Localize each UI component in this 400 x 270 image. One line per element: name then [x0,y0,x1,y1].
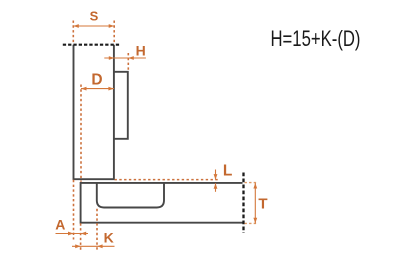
hinge cup hole [97,183,164,208]
svg-text:S: S [90,8,99,23]
svg-text:K: K [104,230,114,246]
svg-text:T: T [258,195,267,212]
black dashed reference line right [242,173,244,234]
side panel (vertical piece) [74,45,114,180]
extension line S right [113,21,115,44]
extension tick T bottom [245,222,258,224]
dimension D [81,87,114,91]
dimension S [73,24,114,28]
svg-text:A: A [55,217,65,233]
dimension L [214,170,218,192]
dimension K [72,244,115,248]
svg-text:H=15+K-(D): H=15+K-(D) [271,26,361,51]
extension line S left [72,21,74,44]
svg-text:H: H [136,42,146,58]
extension line H right [127,53,129,71]
dimension T [253,183,257,223]
extension line panel front lower [80,223,82,251]
extension line D left [80,85,82,182]
extension line cup edge lower [96,209,98,252]
black dashed reference line top [63,44,121,46]
dimension A [56,232,89,236]
mounting plate rectangle [114,72,128,139]
svg-text:D: D [91,71,102,88]
dimension H [104,56,146,60]
extension tick T top [245,182,258,184]
svg-text:L: L [223,163,232,180]
extension line door face [73,180,75,240]
door panel (horizontal piece) [81,183,243,223]
extension line L reference horizontal [115,179,220,181]
